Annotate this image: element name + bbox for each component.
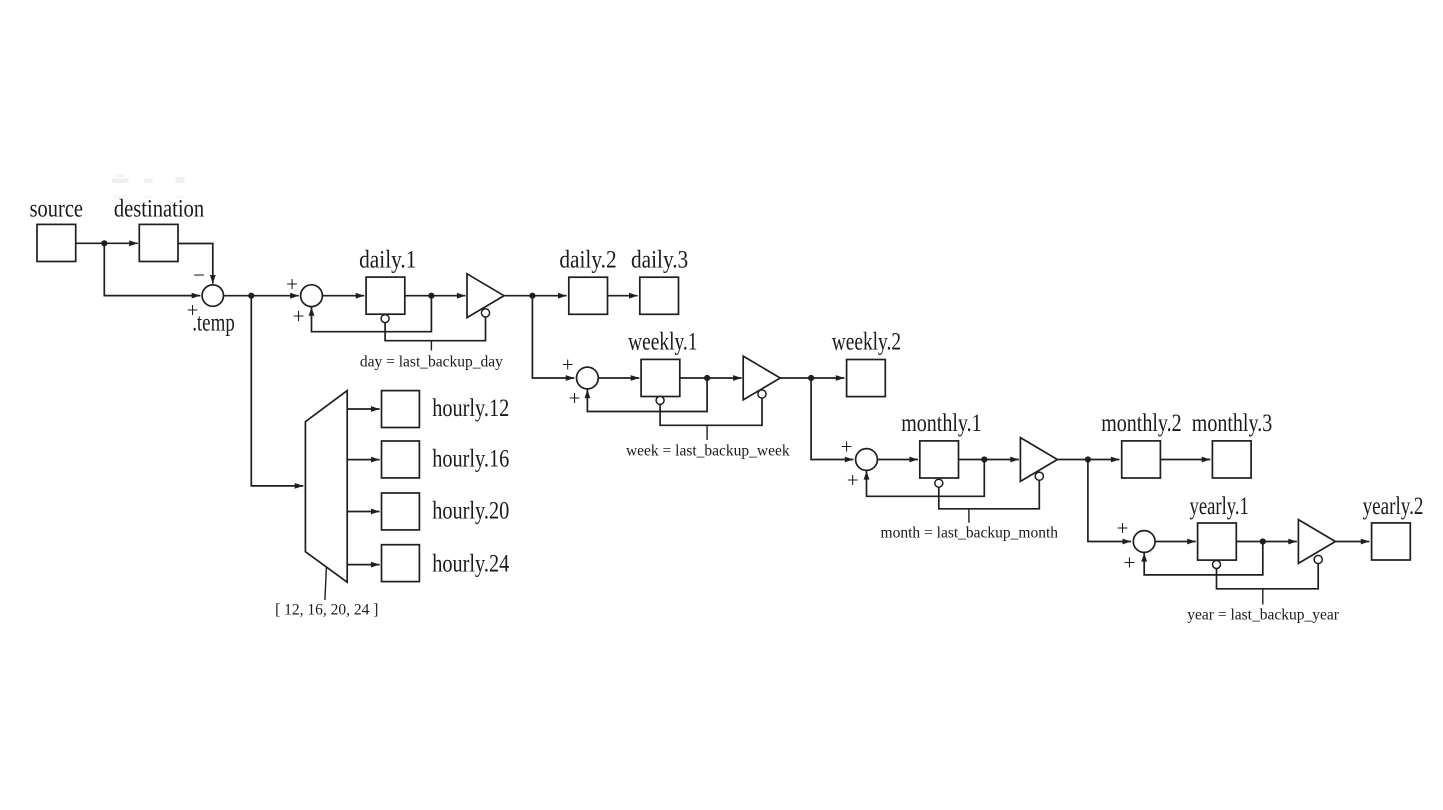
svg-text:hourly.16: hourly.16 <box>432 445 509 472</box>
wire daily.2 to daily.3 <box>608 293 638 299</box>
wire demux to hourly.16 <box>347 457 379 463</box>
wire yearly adder to yearly.1 <box>1155 539 1196 545</box>
weekly adder summing junction <box>577 367 599 389</box>
wire subtractor to daily adder <box>224 293 299 299</box>
wire demux to hourly.24 <box>347 562 379 568</box>
wire demux to hourly.20 <box>347 509 379 515</box>
svg-text:+: + <box>1117 516 1129 540</box>
svg-text:daily.2: daily.2 <box>559 247 616 274</box>
wire daily buffer to daily.2 <box>504 293 567 299</box>
wire yearly buffer to yearly.2 <box>1335 539 1369 545</box>
svg-text:yearly.1: yearly.1 <box>1190 493 1249 520</box>
faint ghost text remnants top-left <box>112 175 185 200</box>
svg-text:[ 12, 16, 20, 24 ]: [ 12, 16, 20, 24 ] <box>275 602 378 619</box>
block weekly.1 <box>641 359 680 396</box>
junction monthly.1 output <box>981 456 987 462</box>
svg-text:+: + <box>286 272 298 296</box>
wire monthly.2 to monthly.3 <box>1160 457 1210 463</box>
yearly buffer triangle <box>1298 520 1335 564</box>
block hourly.12 <box>382 391 420 428</box>
block hourly.24 <box>382 545 420 582</box>
svg-text:source: source <box>30 196 83 223</box>
svg-text:monthly.3: monthly.3 <box>1192 410 1272 437</box>
pointer line demux selector label <box>325 567 327 600</box>
svg-text:+: + <box>293 304 305 328</box>
monthly buffer triangle <box>1020 438 1057 482</box>
wire daily output down to weekly adder <box>532 296 574 381</box>
svg-text:weekly.2: weekly.2 <box>832 329 901 356</box>
svg-text:−: − <box>193 263 205 287</box>
block hourly.16 <box>382 441 420 478</box>
svg-text:day = last_backup_day: day = last_backup_day <box>360 354 503 371</box>
block monthly.3 <box>1212 441 1251 478</box>
wire monthly.1 output feedback to adder <box>864 460 985 497</box>
wire yearly state to buffer state <box>1217 564 1319 589</box>
wire monthly state to buffer state <box>939 480 1040 509</box>
svg-text:week = last_backup_week: week = last_backup_week <box>626 443 790 460</box>
block daily.2 <box>569 277 608 314</box>
svg-text:monthly.2: monthly.2 <box>1101 410 1181 437</box>
state port circle under monthly.1 <box>935 479 943 487</box>
junction daily.1 output <box>428 293 434 299</box>
block yearly.2 <box>1372 523 1411 560</box>
block daily.1 <box>366 277 405 314</box>
yearly adder summing junction <box>1133 531 1155 553</box>
block weekly.2 <box>847 360 886 397</box>
state port circle on monthly buffer <box>1035 472 1043 480</box>
svg-text:+: + <box>1123 550 1135 574</box>
daily adder summing junction <box>301 285 323 307</box>
junction daily buffer output <box>529 293 535 299</box>
wire daily.1 output feedback to adder <box>309 296 432 332</box>
pointer line yearly parameter label <box>1262 589 1264 605</box>
junction .temp output <box>248 293 254 299</box>
state port circle under daily.1 <box>381 315 389 323</box>
block destination <box>139 224 178 261</box>
svg-text:yearly.2: yearly.2 <box>1363 493 1424 520</box>
wire destination to subtractor top input <box>178 244 216 284</box>
svg-text:hourly.12: hourly.12 <box>432 395 509 422</box>
pointer line weekly parameter label <box>706 425 708 440</box>
subtractor summing junction <box>202 285 223 306</box>
block daily.3 <box>640 277 679 314</box>
pointer line monthly parameter label <box>968 509 970 523</box>
wire weekly.1 to weekly buffer <box>680 375 742 381</box>
wire monthly output down to yearly adder <box>1088 460 1131 545</box>
wire .temp junction down to hourly demux <box>251 296 303 489</box>
junction weekly buffer output <box>808 375 814 381</box>
block source <box>37 224 76 261</box>
svg-text:+: + <box>569 386 581 410</box>
block hourly.20 <box>382 493 420 530</box>
junction yearly.1 output <box>1260 538 1266 544</box>
wire yearly.1 to yearly buffer <box>1236 539 1297 545</box>
block monthly.2 <box>1122 441 1161 478</box>
wire monthly adder to monthly.1 <box>878 457 919 463</box>
wire monthly buffer to monthly.2 <box>1058 457 1120 463</box>
weekly buffer triangle <box>743 356 780 400</box>
svg-text:monthly.1: monthly.1 <box>901 410 981 437</box>
block monthly.1 <box>920 441 959 478</box>
junction monthly buffer output <box>1085 456 1091 462</box>
wire weekly buffer to weekly.2 <box>780 375 844 381</box>
wire weekly state to buffer state <box>660 398 762 425</box>
wire daily.1 to daily buffer <box>405 293 466 299</box>
pointer line daily parameter label <box>430 341 432 351</box>
svg-text:daily.1: daily.1 <box>359 247 416 274</box>
svg-text:.temp: .temp <box>192 310 235 337</box>
state port circle on daily buffer <box>481 309 489 317</box>
svg-text:daily.3: daily.3 <box>631 247 688 274</box>
svg-text:hourly.24: hourly.24 <box>432 550 509 577</box>
svg-text:+: + <box>562 352 574 376</box>
state port circle on weekly buffer <box>758 390 766 398</box>
state port circle under weekly.1 <box>656 396 664 404</box>
state port circle under yearly.1 <box>1213 561 1221 569</box>
hourly demultiplexer trapezoid <box>305 391 347 583</box>
svg-text:year = last_backup_year: year = last_backup_year <box>1187 607 1339 624</box>
wire monthly.1 to monthly buffer <box>959 457 1019 463</box>
wire weekly adder to weekly.1 <box>598 375 639 381</box>
svg-text:hourly.20: hourly.20 <box>432 497 509 524</box>
wire source junction to subtractor left input <box>104 243 200 298</box>
wire demux to hourly.12 <box>347 406 379 412</box>
junction source output <box>101 240 107 246</box>
block yearly.1 <box>1198 523 1237 560</box>
wire weekly output down to monthly adder <box>811 378 853 462</box>
svg-text:month = last_backup_month: month = last_backup_month <box>881 525 1059 542</box>
monthly adder summing junction <box>856 449 878 471</box>
svg-text:weekly.1: weekly.1 <box>628 329 697 356</box>
state port circle on yearly buffer <box>1314 555 1322 563</box>
wire source to destination <box>76 240 138 246</box>
wire daily state to buffer state <box>385 317 485 341</box>
daily buffer triangle <box>467 274 504 318</box>
wire weekly.1 output feedback to adder <box>585 378 708 412</box>
svg-text:destination: destination <box>114 196 205 223</box>
svg-text:+: + <box>847 468 859 492</box>
wire daily adder to daily.1 <box>323 293 365 299</box>
wire yearly.1 output feedback to adder <box>1141 542 1263 575</box>
svg-text:+: + <box>841 435 853 459</box>
junction weekly.1 output <box>704 375 710 381</box>
